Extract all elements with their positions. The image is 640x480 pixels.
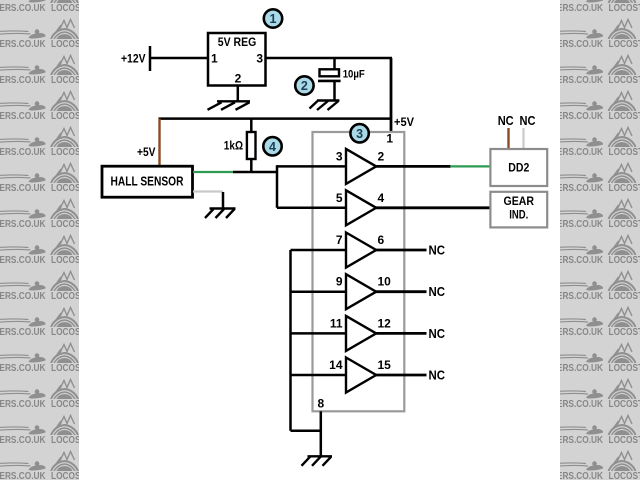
wire row4 input (291, 290, 347, 293)
hall sensor box (102, 166, 193, 197)
wire row2 output to gear indicator (376, 206, 491, 209)
callout circle 1 (264, 9, 282, 27)
buffer 3 pins 7-6 (336, 233, 385, 268)
wire row1 output green to DD2 (450, 165, 491, 167)
svg-text:HALL SENSOR: HALL SENSOR (111, 175, 184, 189)
wire input rail rows 1-2 (276, 165, 279, 208)
wire row6 output NC (376, 369, 445, 383)
svg-text:12: 12 (378, 316, 392, 330)
callout circle 2 (295, 76, 313, 94)
svg-text:14: 14 (329, 358, 343, 372)
ground under regulator (208, 101, 251, 110)
svg-text:NC: NC (429, 369, 446, 383)
svg-text:15: 15 (378, 358, 392, 372)
wire capacitor branch (333, 58, 336, 70)
svg-text:NC: NC (429, 285, 446, 299)
wire green hall sensor output (193, 171, 234, 173)
voltage regulator 5V REG (208, 33, 266, 86)
svg-text:5V REG: 5V REG (218, 37, 257, 49)
svg-text:1: 1 (270, 12, 277, 26)
svg-text:10: 10 (378, 275, 392, 289)
svg-text:NC: NC (498, 114, 514, 128)
ground under hall sensor (205, 209, 236, 219)
wire regulator pin 3 to +5V node (266, 57, 393, 60)
wire row2 input (277, 207, 346, 210)
svg-text:2: 2 (301, 79, 308, 93)
callout circle 4 (263, 137, 281, 155)
svg-text:1: 1 (211, 52, 218, 66)
wire row5 output NC (376, 327, 445, 341)
svg-text:9: 9 (336, 275, 343, 289)
svg-text:3: 3 (256, 52, 263, 66)
wire brown +5V to hall sensor (158, 119, 160, 167)
node +12V terminal (121, 46, 150, 71)
svg-text:NC: NC (429, 327, 446, 341)
svg-text:3: 3 (356, 127, 363, 141)
svg-text:5: 5 (336, 191, 343, 205)
buffer 6 pins 14-15 (329, 358, 391, 393)
wire row1 output black (376, 165, 451, 168)
svg-text:8: 8 (318, 397, 325, 411)
svg-text:NC: NC (429, 244, 446, 258)
buffer 5 pins 11-12 (330, 316, 391, 351)
svg-text:7: 7 (336, 233, 343, 247)
svg-text:IND.: IND. (509, 210, 528, 222)
svg-text:DD2: DD2 (508, 161, 529, 175)
svg-text:2: 2 (378, 149, 385, 163)
wire gray hall sensor to ground (193, 190, 223, 192)
ground under IC pin 8 (302, 456, 333, 466)
svg-text:4: 4 (269, 140, 276, 154)
wire row3 input (291, 249, 347, 252)
wire capacitor to ground (333, 82, 336, 101)
wire +5V vertical drop to rail and IC pin 1 (390, 58, 393, 132)
svg-text:NC: NC (520, 114, 536, 128)
ground under capacitor (310, 101, 340, 111)
wire row3 output NC (376, 244, 445, 258)
wire row1 input (277, 165, 346, 168)
svg-text:4: 4 (378, 191, 385, 205)
wire row6 input (291, 374, 347, 377)
svg-text:10µF: 10µF (343, 69, 365, 81)
resistor R1 1k (224, 119, 256, 172)
svg-text:2: 2 (235, 72, 242, 86)
svg-text:11: 11 (330, 316, 343, 330)
wire +5V rail (159, 117, 392, 120)
wire regulator pin 2 to ground (237, 85, 240, 101)
wire row4 output NC (376, 285, 445, 299)
svg-text:+5V: +5V (394, 117, 414, 129)
buffer 2 pins 5-4 (336, 190, 385, 225)
svg-text:3: 3 (336, 149, 343, 163)
svg-text:+5V: +5V (137, 147, 156, 159)
wire pin 8 to ground (320, 411, 323, 456)
buffer 1 pins 3-2 (336, 149, 385, 184)
wire input rail rows 3-6 (289, 250, 292, 431)
wire hall output to input rail (233, 171, 278, 174)
IC hex buffer box U1 (313, 132, 405, 411)
capacitor C1 10uF (318, 69, 365, 81)
svg-text:1kΩ: 1kΩ (224, 140, 243, 152)
wire +12V to regulator pin 1 (150, 57, 208, 60)
DD2 box (490, 149, 547, 186)
svg-text:6: 6 (378, 233, 385, 247)
gear indicator box (490, 192, 547, 228)
buffer 4 pins 9-10 (336, 274, 391, 309)
svg-text:GEAR: GEAR (504, 196, 535, 208)
wire row5 input (291, 332, 347, 335)
wire brown NC to DD2 (507, 128, 509, 149)
svg-text:+12V: +12V (121, 52, 146, 65)
wire unused input rail to pin8 net (291, 430, 321, 433)
wire gray NC to DD2 (522, 128, 524, 149)
callout circle 3 (350, 124, 368, 142)
svg-text:1: 1 (386, 132, 393, 146)
